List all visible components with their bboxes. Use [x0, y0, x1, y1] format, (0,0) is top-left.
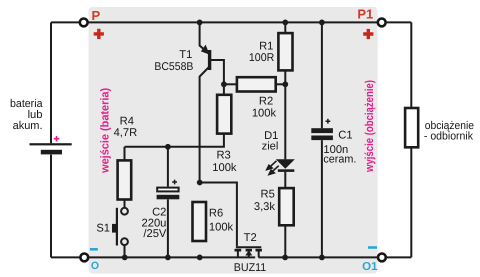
- switch S1 top contact: [121, 208, 128, 215]
- MOSFET T2 substrate arrow: [245, 250, 252, 255]
- svg-text:O: O: [91, 260, 99, 272]
- node C2 tap: [165, 144, 171, 150]
- svg-text:100k: 100k: [252, 107, 277, 119]
- plus sign P: [94, 29, 104, 39]
- wire node B to R3 top: [223, 84, 225, 95]
- wire left branch lower (battery -): [50, 155, 52, 258]
- wire R5 to bottom rail: [284, 225, 286, 257]
- switch S1 actuator bar: [116, 208, 118, 246]
- svg-text:T1: T1: [179, 49, 192, 61]
- terminal O: [80, 254, 88, 262]
- wire T1 base to node B: [211, 60, 224, 84]
- minus sign O: [90, 248, 98, 251]
- resistor R3 100k: [217, 95, 231, 134]
- terminal P: [80, 19, 88, 27]
- svg-text:S1: S1: [96, 222, 110, 234]
- wire C1 stem upper: [321, 22, 323, 128]
- svg-text:3,3k: 3,3k: [254, 201, 276, 213]
- svg-text:akum.: akum.: [13, 120, 43, 132]
- battery bottom plate: [41, 150, 62, 155]
- svg-text:BC558B: BC558B: [154, 61, 193, 73]
- wire T1 emitter: [200, 22, 209, 53]
- node R2/R1 junction: [282, 81, 288, 87]
- resistor R1 100R: [278, 33, 292, 70]
- svg-text:100R: 100R: [249, 52, 274, 64]
- wire T1 collector: [200, 67, 210, 183]
- svg-text:wyjście (obciążenie): wyjście (obciążenie): [364, 80, 376, 173]
- wire bottom rail O to O1 left segment: [51, 256, 255, 258]
- svg-text:R1: R1: [259, 40, 273, 52]
- svg-text:O1: O1: [362, 261, 378, 273]
- transistor T1 base bar: [208, 50, 211, 70]
- wire S1 to bottom rail: [124, 245, 126, 257]
- node T1 emitter on top rail: [197, 20, 203, 26]
- svg-text:- odbiornik: - odbiornik: [424, 131, 473, 143]
- load resistor (obciazenie): [405, 108, 418, 147]
- wire C2 stem upper: [167, 147, 169, 187]
- plus sign P1: [363, 29, 373, 39]
- node R5 on bottom rail: [282, 255, 288, 261]
- minus sign O1: [368, 246, 377, 249]
- MOSFET T2 source lead: [237, 251, 239, 257]
- capacitor C1 plus mark: [326, 119, 331, 124]
- node C1 on bottom rail: [319, 255, 325, 261]
- wire R3 bottom elbow to R4 top: [125, 134, 224, 147]
- MOSFET T2 body segment: [246, 249, 252, 252]
- svg-text:C1: C1: [338, 129, 352, 141]
- battery plus mark: [54, 136, 60, 142]
- svg-text:/25V: /25V: [143, 228, 167, 240]
- terminal O1: [378, 254, 386, 262]
- resistor R2 100k: [237, 77, 276, 91]
- wire C2 stem lower: [167, 199, 169, 257]
- MOSFET T2 source segment: [235, 249, 242, 252]
- wire top rail P to P1: [51, 21, 411, 23]
- svg-text:4,7R: 4,7R: [114, 127, 138, 139]
- resistor R4 4,7R: [118, 160, 132, 199]
- svg-text:R5: R5: [260, 189, 274, 201]
- wire left branch upper (battery +): [50, 22, 52, 143]
- resistor R5 3,3k: [279, 188, 294, 225]
- wire D1 cathode to R5: [284, 172, 286, 188]
- svg-text:100k: 100k: [209, 221, 234, 233]
- wire R2 to R1 column: [276, 83, 286, 85]
- wire gate node to T2 gate: [200, 183, 237, 247]
- wire R4 stem: [124, 147, 126, 161]
- MOSFET T2 gate wire bar: [236, 246, 261, 248]
- svg-text:R2: R2: [259, 95, 273, 107]
- capacitor C2 plus mark: [172, 180, 177, 185]
- wire node B to R2: [224, 83, 237, 85]
- node R6 on bottom rail: [197, 255, 203, 261]
- wire right branch lower (load): [410, 147, 412, 257]
- svg-text:T2: T2: [244, 232, 257, 244]
- node S1 on bottom rail: [122, 255, 128, 261]
- terminal P1: [378, 19, 386, 27]
- node C2 on bottom rail: [165, 255, 171, 261]
- node R1 on top rail: [282, 20, 288, 26]
- svg-text:R3: R3: [216, 149, 230, 161]
- capacitor C2 minus plate (solid): [157, 195, 180, 200]
- LED D1 emission arrows: [267, 161, 279, 175]
- capacitor C1 plate bottom: [311, 136, 333, 141]
- svg-text:BUZ11: BUZ11: [234, 262, 267, 274]
- capacitor C1 plate top: [311, 128, 333, 133]
- MOSFET T2 drain lead: [258, 251, 260, 257]
- resistor R6 100k: [193, 202, 207, 241]
- switch S1 button knob: [112, 224, 116, 233]
- node B (base/R2/R3): [221, 81, 227, 87]
- svg-text:P1: P1: [357, 7, 373, 22]
- svg-text:ceram.: ceram.: [323, 154, 356, 166]
- MOSFET T2 drain segment: [256, 249, 262, 252]
- LED D1 cathode bar: [278, 169, 295, 172]
- svg-text:100k: 100k: [212, 162, 237, 174]
- svg-text:R6: R6: [209, 207, 223, 219]
- shaded module panel: [89, 7, 378, 274]
- wire R1 stem from top rail: [284, 22, 286, 33]
- battery top plate: [30, 143, 72, 145]
- capacitor C2 plus plate (outlined): [157, 188, 178, 192]
- switch S1 bottom contact: [121, 238, 128, 245]
- wire C1 stem lower: [321, 140, 323, 257]
- transistor T1 emitter arrow: [201, 45, 210, 55]
- svg-text:ziel: ziel: [262, 140, 279, 152]
- LED D1 triangle: [276, 159, 295, 169]
- svg-text:P: P: [91, 8, 100, 23]
- node C1 on top rail: [319, 20, 325, 26]
- wire bottom rail O to O1 right segment: [259, 256, 412, 258]
- svg-text:wejście (bateria): wejście (bateria): [100, 88, 112, 174]
- wire R1 bottom to D1 anode: [284, 70, 286, 159]
- svg-text:R4: R4: [120, 116, 134, 128]
- node gate junction: [197, 180, 203, 186]
- wire R4 to S1: [124, 200, 126, 208]
- wire right branch upper (load): [410, 22, 412, 108]
